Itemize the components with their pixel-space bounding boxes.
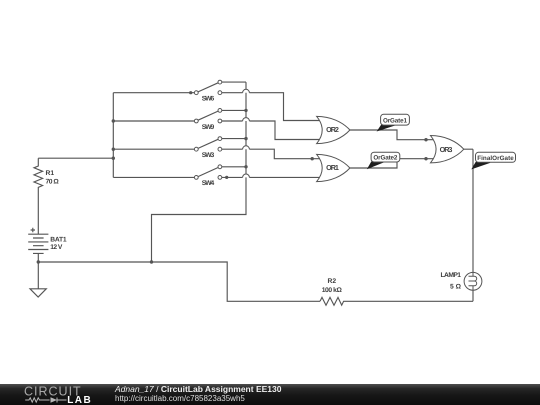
svg-text:LAMP1: LAMP1 <box>441 272 462 279</box>
svg-text:R2: R2 <box>328 278 337 285</box>
svg-text:70 Ω: 70 Ω <box>46 179 60 186</box>
svg-text:5 Ω: 5 Ω <box>450 283 462 290</box>
svg-text:OR1: OR1 <box>326 163 339 172</box>
svg-text:R1: R1 <box>46 170 55 177</box>
svg-text:OR3: OR3 <box>440 145 453 154</box>
svg-text:SW4: SW4 <box>202 180 215 187</box>
svg-text:OR2: OR2 <box>326 125 339 134</box>
svg-text:12 V: 12 V <box>50 244 63 251</box>
svg-text:FinalOrGate: FinalOrGate <box>477 155 514 162</box>
svg-text:SW3: SW3 <box>202 152 215 159</box>
svg-text:OrGate2: OrGate2 <box>373 155 397 162</box>
svg-text:100 kΩ: 100 kΩ <box>322 287 343 294</box>
svg-text:SW9: SW9 <box>202 124 215 131</box>
svg-text:SW6: SW6 <box>202 96 215 103</box>
svg-text:OrGate1: OrGate1 <box>383 118 407 125</box>
svg-text:LAB: LAB <box>67 395 92 405</box>
svg-text:BAT1: BAT1 <box>50 237 67 244</box>
